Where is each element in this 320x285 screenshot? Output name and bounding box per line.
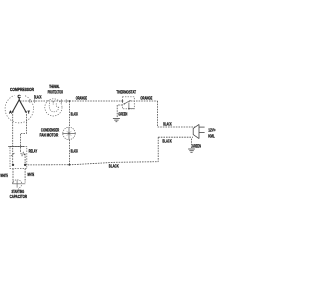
svg-text:COMPRESSOR: COMPRESSOR bbox=[10, 87, 35, 92]
svg-text:BLACK: BLACK bbox=[163, 122, 172, 127]
svg-text:BLACK: BLACK bbox=[71, 148, 79, 153]
svg-text:PROTECTOR: PROTECTOR bbox=[48, 89, 64, 94]
svg-text:BLACK: BLACK bbox=[109, 163, 119, 168]
svg-text:CAPACITOR: CAPACITOR bbox=[10, 194, 28, 199]
svg-text:FAN MOTOR: FAN MOTOR bbox=[40, 133, 59, 138]
svg-text:THERMOSTAT: THERMOSTAT bbox=[116, 89, 136, 94]
svg-text:GREEN: GREEN bbox=[118, 111, 127, 116]
svg-text:BLACK: BLACK bbox=[34, 94, 42, 99]
svg-text:A: A bbox=[9, 110, 12, 115]
svg-text:BLACK: BLACK bbox=[162, 139, 172, 144]
svg-text:RELAY: RELAY bbox=[29, 148, 38, 153]
svg-text:ORANGE: ORANGE bbox=[76, 95, 87, 100]
svg-text:WHITE: WHITE bbox=[0, 173, 8, 178]
svg-text:KML: KML bbox=[208, 134, 215, 139]
svg-text:WHITE: WHITE bbox=[27, 172, 34, 177]
svg-text:GREEN: GREEN bbox=[192, 143, 201, 148]
svg-text:ORANGE: ORANGE bbox=[140, 96, 152, 101]
svg-text:BLACK: BLACK bbox=[71, 112, 79, 117]
svg-text:12V+: 12V+ bbox=[208, 128, 216, 133]
